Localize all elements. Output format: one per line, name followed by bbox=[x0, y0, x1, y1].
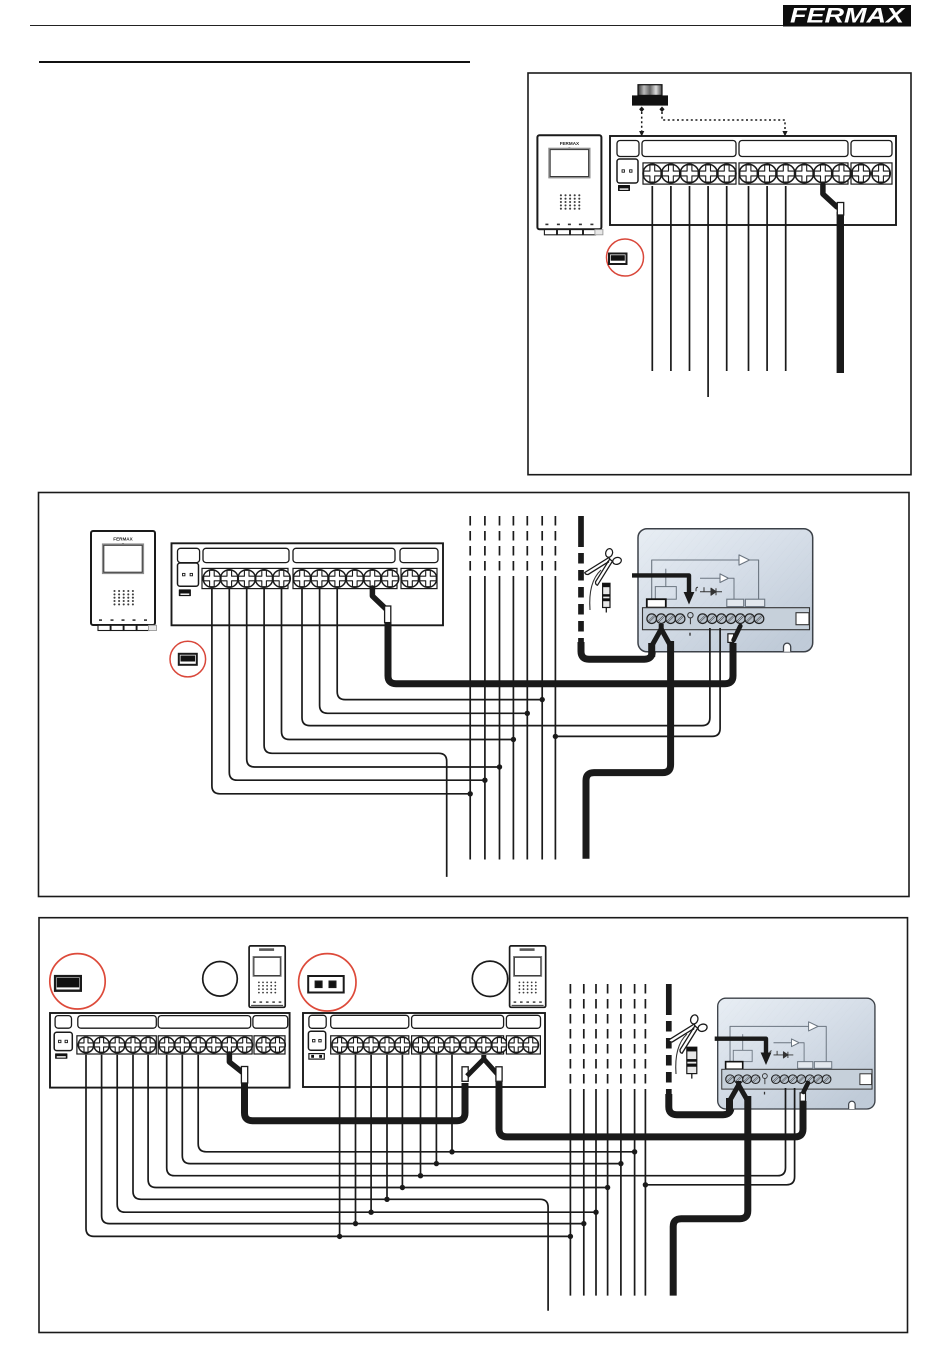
svg-text:FERMAX: FERMAX bbox=[560, 141, 580, 146]
svg-text:FERMAX: FERMAX bbox=[113, 537, 133, 542]
svg-text:FERMAX: FERMAX bbox=[790, 5, 907, 28]
